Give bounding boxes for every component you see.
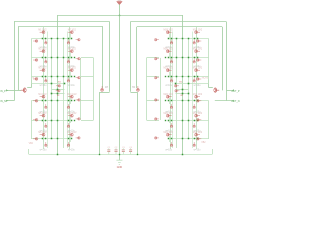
wire right bias mid xyxy=(176,89,189,91)
junction M15 p1 xyxy=(194,76,196,78)
svg-text:M12 10/2: M12 10/2 xyxy=(67,132,77,134)
junction right y38.9 m2 xyxy=(182,38,184,40)
wire output OUTP xyxy=(227,90,234,92)
wire right row bus y139.0 xyxy=(169,138,209,140)
transistor M17c xyxy=(193,123,196,128)
wire Q_IN drain up xyxy=(31,80,33,88)
svg-text:M24 10/2: M24 10/2 xyxy=(164,132,174,134)
wire M1 internal xyxy=(43,34,45,40)
wire right outer left vertical lower xyxy=(208,101,210,139)
svg-text:M23 10/2: M23 10/2 xyxy=(164,113,174,115)
wire right bias top xyxy=(176,83,209,85)
transistor M7a xyxy=(68,31,73,34)
junction M1 p2 xyxy=(42,38,44,40)
transistor M20a xyxy=(166,50,171,53)
svg-text:C1: C1 xyxy=(107,147,111,149)
wire right mid vertical 1 xyxy=(188,39,190,139)
svg-text:VB2: VB2 xyxy=(201,142,206,144)
wire M8 internal xyxy=(70,53,72,59)
transistor side right colB r28 xyxy=(154,38,159,41)
junction right y57.9 m3 xyxy=(176,57,178,59)
transistor side right colB r66 xyxy=(154,76,159,79)
wire left outer left vertical upper xyxy=(31,39,33,84)
wire outer loop top left xyxy=(14,21,110,23)
transistor M3a xyxy=(40,69,45,72)
junction left bias b2 xyxy=(57,93,59,95)
wire right row bus y38.9 xyxy=(169,38,209,40)
wire right row bus y76.9 xyxy=(169,76,209,78)
junction left y139.0 m2 xyxy=(57,138,59,140)
junction M10 p1 xyxy=(68,100,70,102)
transistor M10a xyxy=(68,95,73,98)
svg-text:VB2: VB2 xyxy=(29,143,34,145)
junction M2 p1 xyxy=(45,57,47,59)
svg-text:M22 10/2: M22 10/2 xyxy=(164,94,174,96)
transistor M12a xyxy=(68,133,73,136)
junction left y101.0 m1 xyxy=(51,100,53,102)
transistor side right colA r28 xyxy=(196,40,201,43)
diode pair left lower xyxy=(56,90,61,93)
transistor M17a xyxy=(195,114,200,117)
capacitor C3 xyxy=(122,147,126,155)
junction M15 p2 xyxy=(197,76,199,78)
capacitor C4 xyxy=(129,147,133,155)
junction right bias b2 xyxy=(182,93,184,95)
junction left ext y57.9 xyxy=(74,57,75,58)
transistor side right colA r66 xyxy=(196,78,201,81)
transistor M5c xyxy=(45,123,48,128)
transistor Q_C right xyxy=(136,86,139,91)
transistor M16c xyxy=(193,104,196,109)
wire right row bus y101.0 xyxy=(169,100,209,102)
ground AGND xyxy=(116,160,122,169)
transistor M2a xyxy=(40,50,45,53)
transistor M1a xyxy=(40,31,45,34)
pin arrow OUTP xyxy=(232,89,234,91)
wire left row ext y57.9 xyxy=(81,57,94,59)
transistor M10c xyxy=(67,104,70,109)
junction right bias m1 xyxy=(182,89,184,91)
capacitor C1 xyxy=(107,147,111,155)
junction M13 p2 xyxy=(197,38,199,40)
junction right y139.0 m1 xyxy=(188,138,190,140)
junction M3 p2 xyxy=(42,76,44,78)
transistor M21a xyxy=(166,69,171,72)
pin arrow OUTN xyxy=(232,100,234,102)
wire M11 internal xyxy=(70,117,72,123)
wire outer loop top right xyxy=(131,21,227,23)
wire M12 internal xyxy=(70,136,72,142)
junction left y57.9 m1 xyxy=(51,57,53,59)
transistor side left colA r28 xyxy=(33,40,38,43)
wire left row ext y120.0 xyxy=(81,120,94,122)
wire right row bus y120.0 xyxy=(169,120,209,122)
svg-text:w=10u: w=10u xyxy=(194,85,201,87)
wire left ext vertical xyxy=(93,58,95,120)
svg-text:M10 10/2: M10 10/2 xyxy=(67,94,77,96)
svg-text:C2: C2 xyxy=(115,147,119,149)
wire bottom rail left corner up xyxy=(28,149,30,154)
svg-text:M1 10/2: M1 10/2 xyxy=(38,30,47,32)
wire jog left center xyxy=(99,92,109,94)
junction M16 p1 xyxy=(194,100,196,102)
transistor M8a xyxy=(68,50,73,53)
junction left y76.9 m2 xyxy=(57,76,59,78)
transistor side right colA r47 xyxy=(196,59,201,62)
svg-text:C4: C4 xyxy=(129,147,133,149)
svg-text:M17 10/2: M17 10/2 xyxy=(193,113,203,115)
wire right mid vertical 2 xyxy=(176,39,178,148)
transistor M15a xyxy=(195,69,200,72)
wire M9 internal xyxy=(70,72,72,78)
transistor M24c xyxy=(170,142,173,147)
junction M8 p2 xyxy=(71,57,73,59)
junction left bias b1 xyxy=(51,93,53,95)
svg-text:M20 10/2: M20 10/2 xyxy=(164,49,174,51)
junction M7 p2 xyxy=(71,38,73,40)
diode pair left upper xyxy=(56,85,61,88)
junction M13 p1 xyxy=(194,38,196,40)
junction left bias t2 xyxy=(64,83,66,85)
transistor M13a xyxy=(195,31,200,34)
wire right row ext y57.9 xyxy=(147,57,160,59)
svg-text:B2: B2 xyxy=(57,95,60,97)
transistor M21c xyxy=(170,78,173,83)
junction left ext y101.0 xyxy=(74,100,75,101)
junction M11 p2 xyxy=(71,120,73,122)
transistor M20c xyxy=(170,59,173,64)
junction left y76.9 m1 xyxy=(51,76,53,78)
svg-text:M18 10/2: M18 10/2 xyxy=(193,132,203,134)
junction right y38.9 m1 xyxy=(188,38,190,40)
junction right y76.9 m2 xyxy=(182,76,184,78)
wire net A vertical x109 xyxy=(109,22,111,92)
junction left y76.9 m3 xyxy=(63,76,65,78)
junction right bias t1 xyxy=(188,83,190,85)
wire M23 internal xyxy=(169,117,171,123)
wire left mid vertical 1 xyxy=(51,39,53,139)
wire left bias top xyxy=(31,83,64,85)
junction right bias b1 xyxy=(188,93,190,95)
svg-text:M13 10/2: M13 10/2 xyxy=(193,30,203,32)
svg-text:M19 10/2: M19 10/2 xyxy=(164,30,174,32)
wire VDD vertical xyxy=(119,5,121,16)
transistor M24a xyxy=(166,133,171,136)
transistor M9c xyxy=(67,78,70,83)
wire center vertical net xyxy=(119,15,121,160)
wire right row ext y101.0 xyxy=(147,100,160,102)
pin arrow INP xyxy=(6,89,8,91)
junction M9 p1 xyxy=(68,76,70,78)
power symbol VDD xyxy=(117,1,123,5)
svg-text:w=10u: w=10u xyxy=(40,149,47,151)
transistor M7c xyxy=(67,40,70,45)
transistor side right colB r47 xyxy=(154,57,159,60)
transistor M4c xyxy=(45,104,48,109)
svg-text:M8 10/2: M8 10/2 xyxy=(68,49,77,51)
junction M14 p1 xyxy=(194,57,196,59)
svg-text:w=10u: w=10u xyxy=(194,149,201,151)
transistor M18a xyxy=(195,133,200,136)
wire right colA vertical xyxy=(196,27,198,149)
wire outer loop right vertical xyxy=(226,22,228,101)
transistor side left colA r47 xyxy=(33,59,38,62)
wire inner loop top left xyxy=(18,26,103,28)
wire M2 internal xyxy=(43,53,45,59)
svg-text:M3 10/2: M3 10/2 xyxy=(38,68,47,70)
svg-text:M16 10/2: M16 10/2 xyxy=(193,94,203,96)
transistor side left colB r131 xyxy=(76,137,81,140)
transistor M15c xyxy=(193,78,196,83)
transistor side right colB r93 xyxy=(154,99,159,102)
junction left y101.0 m2 xyxy=(57,100,59,102)
wire bottom rail xyxy=(29,154,212,156)
junction rail x137 xyxy=(137,154,138,155)
junction right y139.0 m2 xyxy=(182,138,184,140)
wire right tail vertical xyxy=(182,15,184,154)
junction right y38.9 m3 xyxy=(176,38,178,40)
wire left row bus y139.0 xyxy=(31,138,71,140)
wire left tail vertical xyxy=(57,15,59,154)
transistor Q_IN left xyxy=(21,88,26,92)
wire Q_IN drain horiz xyxy=(27,87,31,89)
junction M14 p2 xyxy=(197,57,199,59)
wire input INN xyxy=(7,100,14,102)
junction right y101.0 m1 xyxy=(188,100,190,102)
wire M16 internal xyxy=(196,98,198,104)
junction right y57.9 m1 xyxy=(188,57,190,59)
junction M20 p1 xyxy=(171,57,173,59)
junction M12 p1 xyxy=(68,138,70,140)
svg-text:C3: C3 xyxy=(122,147,126,149)
transistor side left colB r93 xyxy=(76,99,81,102)
junction right y101.0 m2 xyxy=(182,100,184,102)
transistor side right colA r112 xyxy=(196,118,201,121)
svg-text:M7 10/2: M7 10/2 xyxy=(68,30,77,32)
svg-text:M2 10/2: M2 10/2 xyxy=(38,49,47,51)
wire left colB vertical xyxy=(69,27,71,149)
wire M19 internal xyxy=(169,34,171,40)
wire right colA bulk vertical xyxy=(192,32,194,149)
svg-text:M4 10/2: M4 10/2 xyxy=(38,94,47,96)
junction M4 p1 xyxy=(45,100,47,102)
wire M20 internal xyxy=(169,53,171,59)
wire Q_IN2 drain up xyxy=(208,80,210,88)
transistor side left colA r66 xyxy=(33,78,38,81)
transistor M12c xyxy=(67,142,70,147)
junction left bias t1 xyxy=(51,83,53,85)
transistor M13c xyxy=(193,40,196,45)
wire right outer left vertical upper xyxy=(208,39,210,84)
junction right y120.0 m1 xyxy=(188,120,190,122)
wire left row bus y76.9 xyxy=(31,76,71,78)
junction M19 p2 xyxy=(168,38,170,40)
wire bottom rail right corner up xyxy=(212,149,214,154)
junction M5 p2 xyxy=(42,120,44,122)
wire inner loop top right xyxy=(137,26,222,28)
junction left y38.9 m2 xyxy=(57,38,59,40)
wire left row ext y76.9 xyxy=(81,76,94,78)
junction M22 p2 xyxy=(168,100,170,102)
wire input INP xyxy=(7,90,21,92)
junction M23 p1 xyxy=(171,120,173,122)
junction rail x57 xyxy=(57,154,59,156)
junction M23 p2 xyxy=(168,120,170,122)
junction M9 p2 xyxy=(71,76,73,78)
junction right ext y101.0 xyxy=(165,100,166,101)
wire right bias bot xyxy=(176,93,189,95)
wire inner loop right vertical xyxy=(222,27,224,91)
wire right row ext y120.0 xyxy=(147,120,160,122)
wire Q_IN2 drain horiz xyxy=(209,87,213,89)
wire right colB gate vertical xyxy=(160,58,162,120)
wire left row bus y101.0 xyxy=(31,100,71,102)
wire left row bus y57.9 xyxy=(31,57,71,59)
wire right ext vertical xyxy=(146,58,148,120)
transistor M6a xyxy=(40,133,45,136)
transistor M1c xyxy=(45,40,48,45)
wire left bias bot xyxy=(52,93,65,95)
junction M16 p2 xyxy=(197,100,199,102)
transistor M18c xyxy=(193,142,196,147)
transistor M22a xyxy=(166,95,171,98)
wire outer loop left vertical xyxy=(14,22,16,101)
junction left y120.0 m2 xyxy=(57,120,59,122)
junction left y120.0 m1 xyxy=(51,120,53,122)
junction left y57.9 m3 xyxy=(63,57,65,59)
wire M14 internal xyxy=(196,53,198,59)
junction M3 p1 xyxy=(45,76,47,78)
junction M1 p1 xyxy=(45,38,47,40)
junction left y38.9 m1 xyxy=(51,38,53,40)
svg-text:B2: B2 xyxy=(181,95,184,97)
junction right y57.9 m2 xyxy=(182,57,184,59)
junction right ext y76.9 xyxy=(165,76,166,77)
transistor M16a xyxy=(195,95,200,98)
wire M7 internal xyxy=(70,34,72,40)
wire right center down xyxy=(137,92,139,154)
transistor M5a xyxy=(40,114,45,117)
transistor M23a xyxy=(166,114,171,117)
svg-text:GND: GND xyxy=(117,166,123,169)
transistor M6c xyxy=(45,142,48,147)
junction left y38.9 m3 xyxy=(63,38,65,40)
transistor side right colB r112 xyxy=(154,118,159,121)
junction M8 p1 xyxy=(68,57,70,59)
junction M6 p2 xyxy=(42,138,44,140)
transistor side right colA r131 xyxy=(196,137,201,140)
wire left colB bulk vertical xyxy=(67,32,69,149)
wire M18 internal xyxy=(196,136,198,142)
wire jog right center xyxy=(131,92,138,94)
svg-text:M5 10/2: M5 10/2 xyxy=(38,113,47,115)
svg-text:M15 10/2: M15 10/2 xyxy=(193,68,203,70)
wire M15 internal xyxy=(196,72,198,78)
junction left bias m1 xyxy=(57,89,59,91)
svg-text:M11 10/2: M11 10/2 xyxy=(67,113,77,115)
svg-text:IN_N: IN_N xyxy=(0,100,6,103)
svg-text:M9 10/2: M9 10/2 xyxy=(68,68,77,70)
junction M18 p1 xyxy=(194,138,196,140)
wire M24 internal xyxy=(169,136,171,142)
svg-text:w=10u: w=10u xyxy=(40,85,47,87)
svg-text:M14 10/2: M14 10/2 xyxy=(193,49,203,51)
wire right row ext y76.9 xyxy=(147,76,160,78)
transistor Q_C left xyxy=(101,86,104,91)
junction M17 p2 xyxy=(197,120,199,122)
transistor side left colB r28 xyxy=(76,38,81,41)
wire left outer left vertical lower xyxy=(31,101,33,139)
junction right ext y120.0 xyxy=(165,120,166,121)
wire M17 internal xyxy=(196,117,198,123)
junction M24 p2 xyxy=(168,138,170,140)
junction left ext y120.0 xyxy=(74,120,75,121)
transistor side left colB r112 xyxy=(76,118,81,121)
svg-text:IN_P: IN_P xyxy=(0,90,6,93)
junction rail x99 xyxy=(99,154,100,155)
wire output OUTN xyxy=(215,100,233,102)
wire M4 internal xyxy=(43,98,45,104)
wire M6 internal xyxy=(43,136,45,142)
transistor M11c xyxy=(67,123,70,128)
diode pair right upper xyxy=(174,85,179,88)
transistor M11a xyxy=(68,114,73,117)
wire right row bus y57.9 xyxy=(169,57,209,59)
wire left mid vertical 2 xyxy=(63,39,65,148)
wire inner loop left vertical xyxy=(18,27,20,91)
transistor M22c xyxy=(170,104,173,109)
wire net B2 vertical x137 xyxy=(136,27,138,88)
transistor M19a xyxy=(166,31,171,34)
junction M24 p1 xyxy=(171,138,173,140)
wire left colA bulk vertical xyxy=(47,32,49,149)
transistor side left colA r112 xyxy=(33,118,38,121)
junction M22 p1 xyxy=(171,100,173,102)
junction M4 p2 xyxy=(42,100,44,102)
svg-text:w=10u: w=10u xyxy=(165,85,172,87)
transistor M2c xyxy=(45,59,48,64)
junction M10 p2 xyxy=(71,100,73,102)
junction right ext y57.9 xyxy=(165,57,166,58)
pin arrow INN xyxy=(6,100,8,102)
transistor M23c xyxy=(170,123,173,128)
wire M21 internal xyxy=(169,72,171,78)
transistor M14c xyxy=(193,59,196,64)
wire left bias mid xyxy=(52,89,65,91)
svg-text:w=10u: w=10u xyxy=(68,149,75,151)
junction M18 p2 xyxy=(197,138,199,140)
transistor M8c xyxy=(67,59,70,64)
transistor side left colA r93 xyxy=(33,99,38,102)
junction rail x183 xyxy=(182,154,184,156)
transistor side right colB r131 xyxy=(154,137,159,140)
transistor side left colB r66 xyxy=(76,76,81,79)
wire left row bus y38.9 xyxy=(31,38,71,40)
wire left colB gate vertical xyxy=(80,58,82,120)
transistor M9a xyxy=(68,69,73,72)
transistor side left colB r47 xyxy=(76,57,81,60)
junction M6 p1 xyxy=(45,138,47,140)
junction M17 p1 xyxy=(194,120,196,122)
transistor Q_IN right xyxy=(214,88,219,92)
wire VDD top rail xyxy=(57,15,183,17)
wire left colA vertical xyxy=(43,27,45,149)
junction rail x119 xyxy=(119,154,120,155)
wire M13 internal xyxy=(196,34,198,40)
junction right bias t2 xyxy=(175,83,177,85)
capacitor C2 xyxy=(115,147,119,155)
junction M12 p2 xyxy=(71,138,73,140)
